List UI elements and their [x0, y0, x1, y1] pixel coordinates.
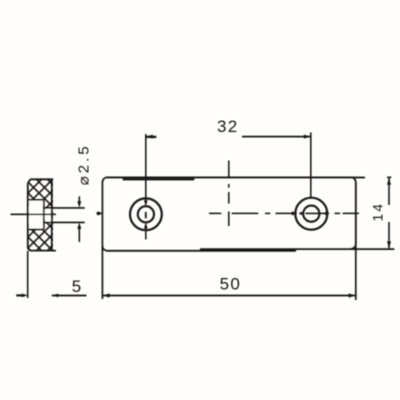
svg-text:32: 32 — [217, 117, 239, 136]
svg-text:50: 50 — [220, 275, 242, 294]
svg-text:⌀2.5: ⌀2.5 — [75, 143, 92, 185]
svg-text:14: 14 — [370, 202, 386, 222]
svg-text:5: 5 — [72, 277, 81, 296]
